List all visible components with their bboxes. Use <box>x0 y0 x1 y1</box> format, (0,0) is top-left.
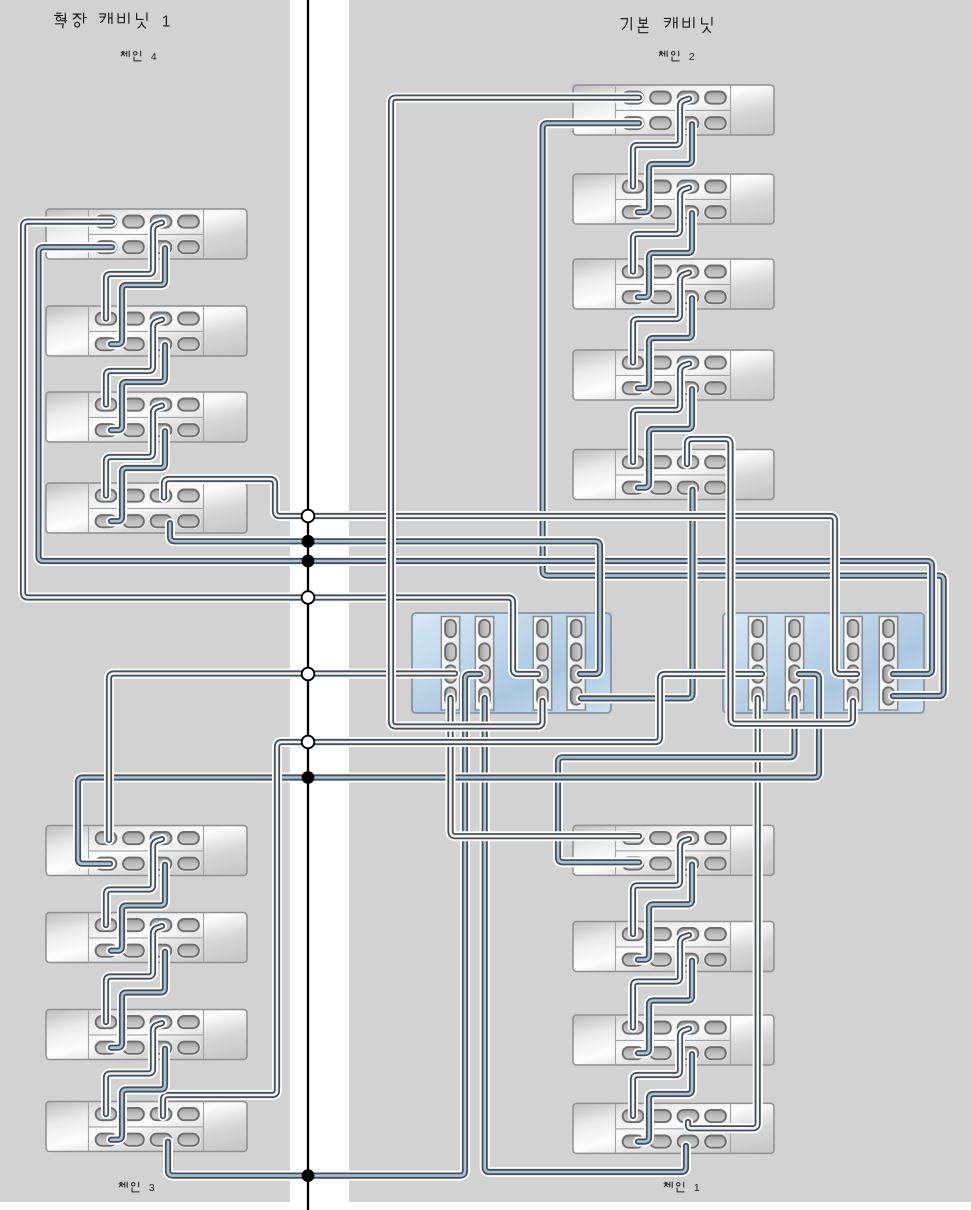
junction open circle at cabinet boundary y=674 <box>302 668 315 681</box>
junction open circle at cabinet boundary y=516 <box>302 510 315 523</box>
svg-text:1: 1 <box>694 1183 700 1194</box>
wire chain1 daisy cable bottom-row (blue) <box>638 961 692 1053</box>
label: chain 3 <box>119 1182 155 1194</box>
wire chain4 daisy cable bottom-row (blue) <box>111 345 165 430</box>
wire chain1 daisy cable bottom-row (blue) <box>638 865 692 960</box>
wire chain4 shelf4 bottom port3 to controller1 slot4 port3 (blue) <box>170 523 600 674</box>
wire controller1 slot2 port4 to chain1 shelf4 bottom port3 (blue) <box>485 698 686 1172</box>
wire chain2 daisy cable top-row (white) <box>633 364 689 463</box>
controller #1 <box>412 613 611 713</box>
disk shelf chain3 #4 <box>46 1102 247 1152</box>
wire chain4 daisy cable bottom-row (blue) <box>111 431 165 521</box>
cabinet boundary line <box>307 0 309 1210</box>
label: chain 2 <box>659 51 695 63</box>
disk shelf chain2 #1 <box>573 85 774 135</box>
wire chain3 shelf4 bottom port3 to controller1 slot2 port3 (blue) <box>168 674 480 1176</box>
wire chain4 daisy cable top-row (white) <box>106 223 162 319</box>
disk shelf chain4 #4 <box>46 483 247 533</box>
wire chain2 daisy cable bottom-row (blue) <box>638 213 692 297</box>
label: chain 4 <box>121 51 157 63</box>
title: expansion cabinet 1 <box>55 13 171 31</box>
label: chain 1 <box>664 1182 700 1194</box>
junction filled dot at cabinet boundary y=1175.6 <box>302 1169 315 1182</box>
wire chain4 shelf4 top port3 to controller2 slot3 port3 (white) <box>164 479 857 674</box>
disk shelf chain4 #3 <box>46 392 247 442</box>
wire chain2 daisy cable top-row (white) <box>633 188 689 272</box>
wire chain4 daisy cable top-row (white) <box>106 320 162 405</box>
disk shelf chain2 #3 <box>573 259 774 309</box>
disk shelf chain4 #1 <box>46 209 247 259</box>
wire chain2 daisy cable top-row (white) <box>633 99 689 187</box>
right cabinet panel <box>349 0 971 1202</box>
wire chain4 daisy cable bottom-row (blue) <box>111 248 165 344</box>
wire controller1 slot1 port4 to chain1 shelf1 top port1 (white) <box>451 698 640 836</box>
wire chain4 shelf1 top port1 to controller1 slot3 port3 (white) <box>23 222 538 674</box>
wire chain3 daisy cable bottom-row (blue) <box>111 952 165 1048</box>
wire chain1 daisy cable top-row (white) <box>633 935 689 1028</box>
disk shelf chain4 #2 <box>46 306 247 356</box>
disk shelf chain3 #1 <box>46 826 247 876</box>
wire controller2 slot2 port4 to chain1 shelf1 bottom port1 (blue) <box>558 698 795 862</box>
wire chain2 daisy cable bottom-row (blue) <box>638 389 692 488</box>
wire chain3 shelf1 top port1 to controller1 slot1 port3 (white) <box>109 674 455 841</box>
junction open circle at cabinet boundary y=597.5 <box>302 591 315 604</box>
junction filled dot at cabinet boundary y=777.5 <box>302 771 315 784</box>
junction open circle at cabinet boundary y=742 <box>302 736 315 749</box>
disk shelf chain3 #2 <box>46 913 247 963</box>
wire controller2 slot1 port4 to chain1 shelf4 top port3 (white) <box>688 698 758 1128</box>
wire chain2 shelf5 top port3 to controller2 slot3 port4 (white) <box>687 439 853 724</box>
wire chain4 shelf1 bottom port1 to controller2 slot4 port3 (blue) <box>39 247 933 674</box>
wire chain3 daisy cable bottom-row (blue) <box>111 865 165 951</box>
junction filled dot at cabinet boundary y=561 <box>302 555 315 568</box>
wire chain3 daisy cable top-row (white) <box>106 926 162 1022</box>
junction filled dot at cabinet boundary y=541.3 <box>302 535 315 548</box>
wire chain1 daisy cable top-row (white) <box>633 1029 689 1116</box>
wire chain2 shelf1 top port1 to controller1 slot3 port4 (white) <box>391 98 639 727</box>
disk shelf chain2 #5 <box>573 450 774 500</box>
disk shelf chain2 #2 <box>573 174 774 224</box>
disk shelf chain1 #4 <box>573 1103 774 1153</box>
wire chain2 daisy cable top-row (white) <box>633 273 689 363</box>
wire chain4 daisy cable top-row (white) <box>106 406 162 496</box>
disk shelf chain3 #3 <box>46 1010 247 1060</box>
wire chain1 daisy cable top-row (white) <box>633 839 689 934</box>
wire chain3 daisy cable top-row (white) <box>106 839 162 925</box>
controller #2 <box>723 613 924 713</box>
wire chain2 daisy cable bottom-row (blue) <box>638 298 692 388</box>
left cabinet panel <box>0 0 290 1202</box>
wire chain3 daisy cable bottom-row (blue) <box>111 1049 165 1140</box>
disk shelf chain2 #4 <box>573 350 774 400</box>
wire chain3 shelf4 top port3 to controller2 slot1 port3 (white) <box>163 674 762 1116</box>
wire chain1 daisy cable bottom-row (blue) <box>638 1054 692 1141</box>
wire chain3 shelf1 bottom port1 to controller2 slot2 port3 (blue) <box>78 674 819 864</box>
wire chain3 daisy cable top-row (white) <box>106 1023 162 1114</box>
disk shelf chain1 #1 <box>573 825 774 875</box>
disk shelf chain1 #3 <box>573 1015 774 1065</box>
disk shelf chain1 #2 <box>573 922 774 972</box>
svg-text:1: 1 <box>162 13 171 30</box>
wire chain2 shelf1 bottom port1 to controller2 slot4 port4 (blue) <box>543 123 944 696</box>
title: base cabinet <box>621 17 712 32</box>
wire chain2 shelf5 bottom port3 to controller1 slot4 port4 (blue) <box>581 490 693 699</box>
svg-text:3: 3 <box>149 1183 155 1194</box>
svg-text:4: 4 <box>151 52 157 63</box>
wire chain2 daisy cable bottom-row (blue) <box>638 124 692 212</box>
svg-text:2: 2 <box>689 52 695 63</box>
